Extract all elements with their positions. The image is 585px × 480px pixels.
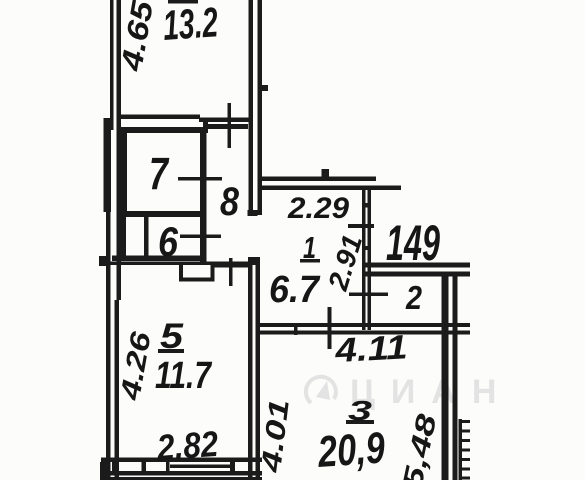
svg-text:1: 1	[303, 230, 316, 265]
svg-text:11.7: 11.7	[155, 355, 212, 397]
svg-text:6.7: 6.7	[269, 269, 321, 311]
svg-text:3: 3	[348, 395, 373, 426]
svg-text:20,9: 20,9	[315, 423, 386, 477]
svg-text:ЦИАН: ЦИАН	[350, 373, 512, 411]
svg-text:149: 149	[386, 215, 440, 271]
svg-text:2.29: 2.29	[287, 192, 349, 225]
svg-text:2: 2	[405, 279, 422, 316]
svg-text:5: 5	[160, 317, 184, 356]
svg-text:6: 6	[158, 218, 179, 265]
svg-text:8: 8	[220, 180, 240, 224]
svg-text:4.11: 4.11	[333, 328, 408, 370]
svg-text:13.2: 13.2	[161, 0, 219, 49]
svg-text:2.82: 2.82	[155, 423, 220, 468]
svg-text:7: 7	[149, 148, 169, 199]
